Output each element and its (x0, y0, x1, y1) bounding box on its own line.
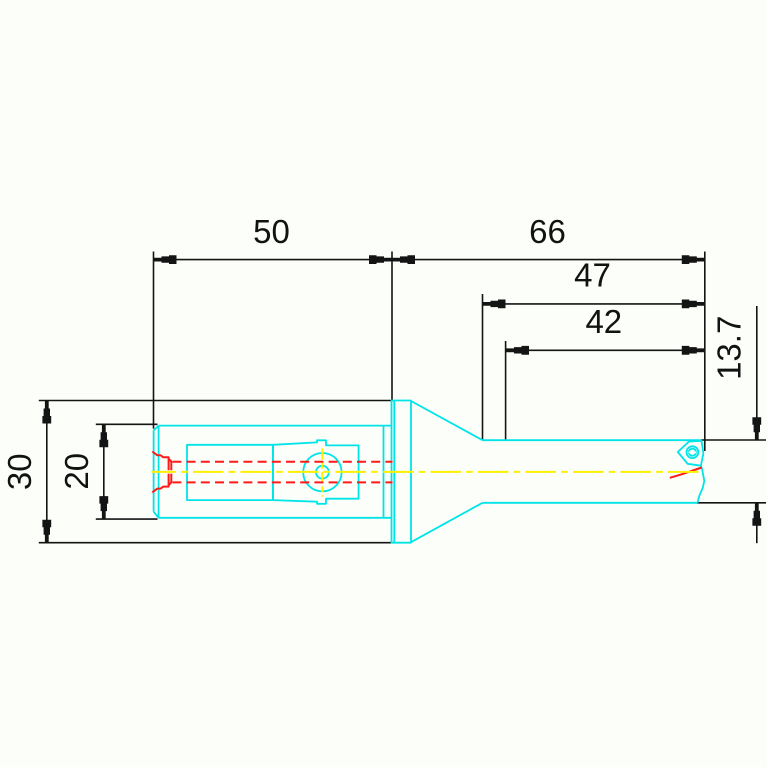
ext line 47 left (482, 294, 484, 440)
svg-text:47: 47 (574, 256, 611, 293)
taper bottom (411, 503, 483, 542)
arrow 20 bottom (99, 496, 108, 519)
dim line 30 (46, 401, 48, 543)
shank top edge (159, 425, 392, 427)
ext line 20 top (96, 423, 158, 425)
arrow 50 right (369, 255, 392, 264)
insert screw slot highlight (689, 451, 697, 453)
dim line 20 (103, 424, 105, 519)
svg-text:42: 42 (585, 303, 622, 340)
ext line 30 bottom (39, 542, 393, 544)
shank inner vertical (383, 426, 385, 518)
ext line 42 left (505, 341, 507, 440)
clamp profile top tick (169, 459, 172, 470)
arrow 30 top (42, 401, 51, 424)
svg-text:20: 20 (58, 453, 95, 490)
arrow 47 right (682, 300, 705, 309)
main center line (152, 471, 699, 473)
arrow 66 left (392, 255, 415, 264)
arrow 20 top (99, 424, 108, 447)
arrow 50 left (154, 255, 177, 264)
clamp profile bottom (152, 474, 168, 493)
screw vertical center line (321, 448, 323, 496)
arrow 30 bottom (42, 520, 51, 543)
ext line right (66/47/42) (704, 252, 706, 452)
clamp screw inner circle (316, 466, 329, 479)
body bottom edge (483, 502, 698, 504)
body top edge (483, 439, 702, 441)
ext line 13.7 top (702, 439, 767, 441)
taper top (411, 401, 483, 440)
hidden hole line bottom (172, 481, 392, 483)
clamp profile bottom tick (169, 474, 172, 485)
arrow 66 right (682, 255, 705, 264)
shank chamfer bottom diagonal (154, 512, 159, 518)
arrow 42 right (682, 346, 705, 355)
dim line 13.7 lower (756, 503, 758, 543)
ext line 13.7 bottom (698, 502, 767, 504)
dim line 13.7 upper (756, 306, 758, 440)
tip edge below insert (698, 466, 705, 503)
cutting edge line at tip (under centerline) (670, 468, 702, 478)
svg-text:30: 30 (1, 453, 38, 490)
ext line 50 left (153, 252, 155, 429)
arrow 47 left (483, 300, 506, 309)
hidden hole line top (172, 461, 392, 463)
shank bottom edge (159, 517, 392, 519)
svg-text:66: 66 (529, 213, 566, 250)
sleeve rectangle (187, 445, 273, 500)
clamp profile top (152, 452, 168, 471)
flange inner vertical (393, 401, 395, 543)
svg-text:50: 50 (253, 213, 290, 250)
insert pentagon at tip (678, 441, 704, 466)
svg-text:13.7: 13.7 (710, 316, 747, 380)
insert screw outer circle (687, 446, 699, 458)
arrow 42 left (506, 346, 529, 355)
ext line 50/66 middle (391, 252, 393, 401)
shank left face (158, 426, 160, 518)
clamp screw outer circle (303, 453, 341, 491)
flange rectangle (392, 401, 412, 543)
dim line 47 (483, 303, 705, 305)
shank chamfer top diagonal (154, 426, 159, 431)
insert screw inner circle (689, 449, 696, 456)
shank left chamfer outer (153, 431, 155, 512)
ext line 30 top (39, 400, 393, 402)
dim line 42 (506, 349, 705, 351)
arrow 13.7 bottom (points up) (752, 503, 761, 526)
arrow 13.7 top (points down) (752, 417, 761, 440)
dim line 50/66 (154, 259, 705, 261)
ext line 20 bottom (96, 518, 158, 520)
cartridge polygon (273, 440, 359, 504)
